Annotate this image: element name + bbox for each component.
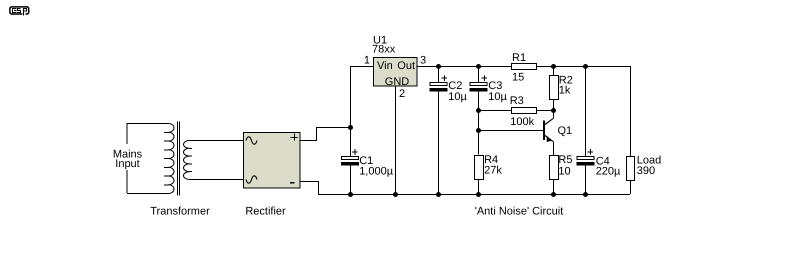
svg-text:78xx: 78xx: [372, 44, 396, 56]
svg-text:Out: Out: [397, 60, 415, 72]
svg-text:10µ: 10µ: [488, 91, 507, 103]
svg-text:1: 1: [364, 55, 370, 67]
svg-text:100k: 100k: [510, 116, 534, 128]
svg-text:R1: R1: [512, 52, 526, 64]
svg-text:3: 3: [420, 55, 426, 67]
svg-text:Input: Input: [115, 158, 139, 170]
svg-text:R3: R3: [510, 95, 524, 107]
svg-text:'Anti Noise' Circuit: 'Anti Noise' Circuit: [475, 206, 564, 218]
svg-text:390: 390: [637, 165, 655, 177]
svg-text:15: 15: [512, 72, 524, 84]
svg-text:2: 2: [399, 88, 405, 100]
svg-text:Vin: Vin: [377, 60, 393, 72]
svg-text:GND: GND: [385, 76, 410, 88]
svg-text:Q1: Q1: [558, 125, 573, 137]
svg-text:10µ: 10µ: [448, 91, 467, 103]
svg-text:1,000µ: 1,000µ: [359, 165, 394, 177]
svg-text:220µ: 220µ: [596, 165, 621, 177]
svg-text:R5: R5: [558, 154, 572, 166]
svg-text:27k: 27k: [484, 165, 502, 177]
svg-text:Rectifier: Rectifier: [245, 206, 286, 218]
svg-text:Transformer: Transformer: [150, 206, 210, 218]
svg-text:10: 10: [558, 165, 570, 177]
svg-text:1k: 1k: [559, 85, 571, 97]
